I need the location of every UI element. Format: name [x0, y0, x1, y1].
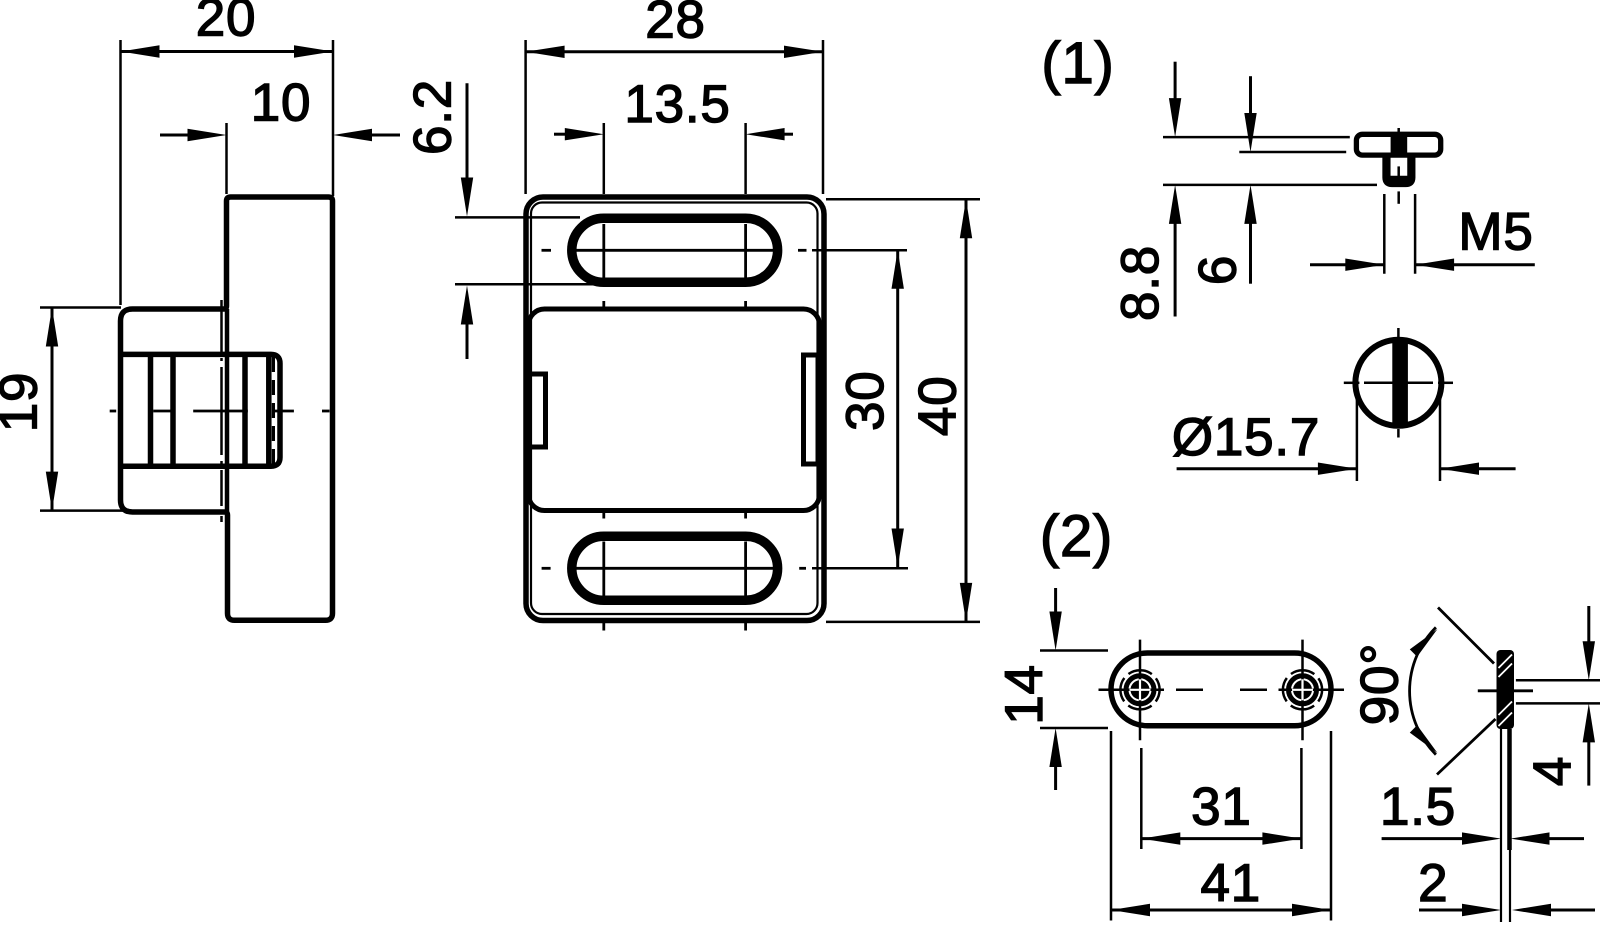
svg-text:6: 6	[1189, 255, 1248, 285]
front view: plate outline	[526, 197, 824, 621]
strike plate left hole: bore circle	[1126, 676, 1154, 704]
strike plate left hole: inner dimple	[1131, 680, 1150, 699]
dimension 41: right extension line	[1330, 731, 1333, 921]
front view: left latch tab	[527, 374, 546, 447]
svg-text:2: 2	[1418, 854, 1448, 913]
screw side view: shank outline	[1385, 155, 1413, 185]
dimension 13.5: left extension line	[603, 123, 606, 194]
svg-text:30: 30	[836, 370, 895, 431]
dimension 30: dim line	[896, 250, 899, 568]
dimension 40: bottom arrow	[960, 583, 972, 622]
dimension 41: dim line	[1111, 909, 1331, 912]
countersink angle: upper ray	[1438, 608, 1494, 664]
screw side view: shank inner recess	[1387, 155, 1391, 178]
dimension 6.2: lower extension line	[455, 283, 595, 286]
front view: middle section outline	[529, 309, 820, 511]
front view: lower slot centerline	[542, 567, 551, 570]
svg-text:40: 40	[909, 376, 968, 437]
svg-text:(2): (2)	[1040, 504, 1113, 569]
svg-text:(1): (1)	[1041, 31, 1114, 96]
svg-text:90°: 90°	[1351, 643, 1410, 726]
dimension 1.5: left line and arrow	[1382, 837, 1466, 840]
screw extension line: head underside	[1239, 151, 1346, 154]
side view: magnet box stripe 4	[266, 356, 272, 465]
screw top view: head circle	[1355, 340, 1441, 426]
svg-text:8.8: 8.8	[1111, 245, 1170, 321]
svg-text:1.5: 1.5	[1380, 777, 1456, 836]
dimension 19: bottom arrow	[46, 472, 58, 511]
dimension 41: left arrow	[1111, 904, 1150, 916]
svg-text:14: 14	[995, 664, 1054, 725]
dimension 14: lower line and arrow	[1054, 766, 1057, 790]
screw top view: horizontal centerline	[1344, 382, 1360, 385]
front view: upper slot centerline	[542, 249, 552, 252]
dimension D15.7: left line and arrow	[1177, 467, 1357, 470]
dimension 6: upper line and arrow	[1249, 76, 1252, 115]
dimension 40: bottom extension line	[826, 621, 980, 624]
dimension 13.5: right tail and arrow	[780, 133, 793, 136]
dimension M5: left line and arrow	[1310, 263, 1384, 266]
side view: magnet box stripe 1	[148, 356, 154, 465]
dimension 30: top extension line	[812, 249, 907, 252]
svg-text:13.5: 13.5	[624, 75, 730, 134]
dimension 8.8: lower line and arrow	[1174, 222, 1177, 317]
screw side view: centerline	[1397, 128, 1400, 136]
strike plate edge view: lower dimple line	[1507, 729, 1512, 850]
dimension 2: right line and arrow	[1547, 909, 1595, 912]
dimension 28: right extension line	[822, 40, 825, 194]
dimension 2: left line and arrow	[1419, 909, 1466, 912]
dimension 14: upper extension line	[1040, 649, 1108, 652]
countersink angle: lower ray	[1437, 719, 1496, 775]
dimension 31: left extension line	[1140, 748, 1143, 849]
dimension 19: top arrow	[46, 308, 58, 347]
dimension 40: top extension line	[826, 198, 980, 201]
dimension 10: extension line	[225, 123, 228, 194]
dimension 40: dim line	[965, 199, 968, 622]
dimension 31: left arrow	[1141, 832, 1180, 844]
dimension 13.5: left tail and arrow	[554, 133, 570, 136]
dimension 10: right tail and arrow	[371, 134, 400, 137]
dimension 20: right arrow	[294, 45, 333, 57]
dimension 1.5: right line and arrow	[1545, 837, 1584, 840]
dimension 19: bottom extension line	[40, 509, 127, 512]
dimension 4: upper extension line	[1516, 679, 1600, 682]
dimension 4: upper line and arrow	[1587, 606, 1590, 645]
strike plate right hole: countersink circle	[1283, 670, 1322, 709]
front view: lower slot	[572, 536, 778, 600]
dimension 31: dim line	[1141, 837, 1301, 840]
dimension 6: lower line and arrow	[1249, 222, 1252, 284]
dimension 8.8: upper line and arrow	[1174, 62, 1177, 100]
strike plate edge view: lower face line	[1500, 729, 1502, 922]
dimension 19: dim line	[51, 308, 54, 511]
countersink angle: lower arc arrow	[1410, 725, 1441, 756]
svg-text:4: 4	[1524, 756, 1583, 786]
dimension 6.2: lower line and arrow	[466, 322, 469, 359]
dimension D15.7: left extension line	[1356, 385, 1359, 481]
strike plate left hole: center cross	[1099, 689, 1165, 692]
dimension 41: right arrow	[1292, 904, 1331, 916]
screw extension line: head top	[1163, 136, 1350, 139]
svg-text:Ø15.7: Ø15.7	[1172, 408, 1320, 467]
side view: plate front face joint line	[225, 309, 230, 512]
svg-text:6.2: 6.2	[404, 79, 463, 155]
side view: magnet box hidden dashed line	[272, 357, 275, 464]
dimension 20: left arrow	[121, 45, 160, 57]
dimension 14: upper line and arrow	[1054, 588, 1057, 612]
side view: magnet box stripe 3	[242, 356, 248, 465]
dimension M5: right line and arrow	[1415, 263, 1535, 266]
dimension 20: right extension line	[332, 40, 335, 196]
svg-text:20: 20	[196, 0, 257, 48]
dimension 28: left extension line	[524, 40, 527, 194]
svg-text:M5: M5	[1458, 203, 1533, 262]
side view: housing+plate profile outline	[121, 197, 333, 620]
dimension 19: top extension line	[40, 306, 121, 309]
front view: upper slot	[572, 218, 778, 282]
strike plate right hole: inner dimple	[1293, 680, 1312, 699]
svg-text:31: 31	[1191, 777, 1252, 836]
svg-text:28: 28	[645, 0, 706, 50]
countersink angle: upper arc arrow	[1410, 625, 1441, 656]
dimension 10: left tail and arrow	[160, 134, 190, 137]
side view: horizontal centerline	[110, 410, 117, 413]
dimension 20: dim line	[121, 50, 334, 53]
side view: magnet box outline	[121, 354, 281, 466]
screw top view: vertical centerline	[1397, 328, 1400, 337]
dimension D15.7: right line and arrow	[1440, 467, 1516, 470]
dimension 31: right arrow	[1262, 832, 1301, 844]
dimension 40: top arrow	[960, 199, 972, 238]
strike plate edge view: centerline cross	[1478, 689, 1533, 692]
strike plate right hole: bore circle	[1289, 676, 1317, 704]
strike plate edge view: plate strip	[1497, 650, 1515, 729]
strike plate right hole: center cross	[1279, 689, 1345, 692]
dimension M5: left extension line	[1383, 194, 1386, 274]
front view: lower slot center marks	[602, 542, 605, 597]
countersink angle: arc	[1410, 627, 1436, 754]
dimension 30: bottom extension line	[812, 567, 908, 570]
dimension 6.2: upper extension line	[455, 216, 580, 219]
front view: upper slot center marks	[602, 224, 605, 278]
front view: right latch tab	[804, 355, 819, 464]
dimension 30: bottom arrow	[892, 529, 904, 568]
dimension 13.5: right extension line	[744, 123, 747, 194]
side view: magnet box stripe 2	[170, 356, 176, 465]
dimension 31: right extension line	[1300, 748, 1303, 849]
dimension 4: lower extension line	[1516, 702, 1600, 705]
dimension 30: top arrow	[892, 250, 904, 289]
screw side view: head outline	[1356, 134, 1440, 155]
strike plate top view: obround outline	[1111, 653, 1331, 726]
strike plate left hole: countersink circle	[1120, 670, 1159, 709]
dimension 41: left extension line	[1110, 731, 1113, 921]
screw side view: head slot	[1391, 137, 1408, 153]
svg-text:41: 41	[1201, 854, 1262, 913]
screw extension line: shank bottom	[1163, 184, 1377, 187]
dimension 4: lower line and arrow	[1587, 742, 1590, 786]
dimension 14: lower extension line	[1040, 727, 1108, 730]
strike plate top view: centerline dashes	[1176, 689, 1203, 692]
dimension D15.7: right extension line	[1439, 385, 1442, 481]
svg-text:10: 10	[251, 74, 312, 133]
strike plate edge view: hatch lines	[1499, 655, 1513, 669]
dimension M5: right extension line	[1414, 194, 1417, 274]
dimension 28: dim line	[526, 50, 823, 53]
dimension 6.2: upper line and arrow	[466, 83, 469, 180]
side view: vertical centerline	[220, 300, 223, 352]
dimension 28: right arrow	[784, 46, 823, 58]
screw top view: screwdriver slot bar	[1392, 340, 1408, 427]
front view: inner tangent-edge outline	[531, 203, 818, 615]
dimension 28: left arrow	[526, 46, 565, 58]
dimension 20: left extension line	[119, 40, 122, 305]
svg-text:19: 19	[0, 372, 49, 433]
